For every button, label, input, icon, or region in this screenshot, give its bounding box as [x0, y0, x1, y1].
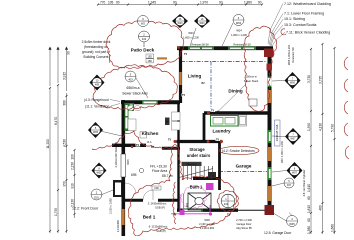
svg-text:W05: W05 — [93, 131, 99, 134]
svg-text:Garage Door: Garage Door — [237, 222, 252, 226]
svg-text:Floor Area: Floor Area — [152, 169, 167, 173]
svg-text:2,130x2,330 Slider(P): 2,130x2,330 Slider(P) — [114, 142, 118, 167]
svg-text:2/240x45 SG8: 2/240x45 SG8 — [275, 124, 279, 141]
bath south window — [182, 209, 203, 212]
svg-text:Sewer Stack Axis: Sewer Stack Axis — [122, 92, 148, 96]
svg-text:1,800 x 1,200: 1,800 x 1,200 — [231, 33, 247, 37]
W04 circle — [222, 15, 244, 47]
svg-text:1,610: 1,610 — [307, 184, 311, 192]
svg-text:1,795: 1,795 — [54, 208, 58, 216]
svg-text:8,470: 8,470 — [54, 117, 58, 125]
svg-text:2,130 x 1,982: 2,130 x 1,982 — [109, 198, 113, 214]
svg-text:1,380: 1,380 — [307, 226, 311, 234]
rotated side texts — [109, 44, 307, 232]
svg-text:Sewer Stack: Sewer Stack — [244, 79, 259, 83]
north wall — [177, 46, 273, 50]
svg-text:W05: W05 — [289, 222, 295, 226]
svg-text:FFL +19,30: FFL +19,30 — [150, 165, 167, 169]
svg-text:2,130x960: 2,130x960 — [116, 219, 120, 232]
svg-text:(4.3: Rangehood: (4.3: Rangehood — [84, 98, 109, 102]
svg-text:W03: W03 — [200, 22, 206, 25]
sewer wall window — [142, 101, 158, 105]
left side diamonds — [88, 75, 122, 201]
svg-text:1,345: 1,345 — [148, 1, 156, 5]
svg-text:15D: 15D — [148, 55, 153, 58]
svg-text:100: 100 — [71, 154, 75, 160]
red sill texts on top wall — [191, 43, 251, 46]
left dimension lines — [49, 88, 51, 233]
svg-text:Building Consent: Building Consent — [84, 55, 109, 59]
svg-text:434: 434 — [224, 202, 229, 206]
svg-text:12.2: Front Door: 12.2: Front Door — [72, 207, 99, 211]
living/laundry south wall — [204, 111, 271, 114]
right side diamonds — [272, 72, 303, 227]
svg-text:433: 433 — [142, 37, 147, 41]
svg-text:4.8: Hot Water Cylinder: 4.8: Hot Water Cylinder — [302, 169, 306, 196]
svg-text:910: 910 — [71, 183, 75, 189]
svg-text:4,130: 4,130 — [319, 123, 323, 131]
svg-text:W06: W06 — [290, 82, 296, 85]
svg-text:403: 403 — [128, 77, 133, 81]
svg-text:3,735: 3,735 — [319, 76, 323, 84]
svg-text:7.12: Weatherboard Cladding: 7.12: Weatherboard Cladding — [284, 2, 331, 6]
svg-text:Basement: Basement — [186, 163, 197, 166]
garage door thin line — [238, 209, 268, 211]
jog wall at entry — [112, 144, 146, 147]
svg-text:2,130 x 1,982: 2,130 x 1,982 — [199, 222, 215, 226]
svg-text:6: 2130x960mm: 6: 2130x960mm — [149, 225, 168, 229]
svg-text:15.1: Skirting: 15.1: Skirting — [284, 17, 305, 21]
svg-text:900: 900 — [185, 202, 189, 207]
dimension ticks — [49, 4, 336, 234]
svg-text:3: 2430x960mm: 3: 2430x960mm — [148, 202, 167, 206]
dining sewer note — [244, 75, 259, 84]
west living wall — [179, 47, 182, 104]
svg-text:Resistant Sill: Resistant Sill — [291, 47, 295, 62]
svg-text:(freestanding on: (freestanding on — [84, 45, 108, 49]
svg-text:105: 105 — [108, 1, 114, 5]
top wall diamonds — [172, 14, 210, 46]
storage north wall — [177, 140, 223, 143]
small boxed labels — [146, 54, 205, 190]
svg-text:11,200: 11,200 — [46, 139, 50, 149]
svg-text:4,530: 4,530 — [63, 139, 67, 147]
east wall windows — [268, 77, 272, 88]
svg-text:3,730: 3,730 — [307, 75, 311, 83]
svg-text:W06 1,000x1,200: W06 1,000x1,200 — [287, 44, 291, 65]
south wall (bath+garage) — [177, 208, 238, 211]
bed1 north wall — [123, 199, 143, 202]
laundry appliances white boxes — [239, 115, 247, 126]
svg-text:Bath 1: Bath 1 — [190, 185, 203, 190]
svg-text:(11.1: Ventilation: (11.1: Ventilation — [85, 105, 109, 109]
svg-text:15.3: Cornice/Scotia: 15.3: Cornice/Scotia — [284, 23, 316, 27]
svg-text:1,660: 1,660 — [331, 224, 335, 232]
svg-text:Resistant Sill 38: Resistant Sill 38 — [233, 43, 251, 46]
svg-text:90: 90 — [258, 1, 262, 5]
storage/bath west wall — [177, 102, 179, 210]
top patio balloons — [138, 16, 150, 48]
svg-text:Kitchen: Kitchen — [142, 131, 159, 136]
orange wall segments — [123, 58, 269, 225]
left rotated dimension numbers — [46, 72, 75, 216]
svg-text:W03: W03 — [188, 31, 194, 35]
kitchen west window — [125, 103, 129, 131]
svg-text:W07 1,800 x 1,200: W07 1,800 x 1,200 — [280, 141, 284, 163]
svg-text:60: 60 — [307, 218, 311, 222]
svg-text:Resistant Sill 38: Resistant Sill 38 — [191, 43, 209, 46]
svg-text:D01: D01 — [94, 195, 99, 199]
svg-text:W04: W04 — [236, 21, 242, 25]
maroon corner blocks — [264, 49, 274, 58]
svg-text:1,815: 1,815 — [307, 205, 311, 213]
svg-text:60: 60 — [307, 196, 311, 200]
svg-text:7.11: Brick Veneer Cladding: 7.11: Brick Veneer Cladding — [286, 30, 330, 34]
svg-text:407: 407 — [287, 184, 292, 187]
svg-text:W05: W05 — [97, 172, 103, 175]
svg-text:W03: W03 — [178, 22, 184, 25]
svg-text:15D: 15D — [148, 60, 153, 63]
right rotated dimension numbers — [307, 75, 335, 234]
svg-text:7.1: Lower Floor Framing: 7.1: Lower Floor Framing — [284, 12, 324, 16]
svg-text:2,230: 2,230 — [71, 162, 75, 170]
svg-text:SGB (P): SGB (P) — [156, 229, 166, 233]
svg-text:950: 950 — [63, 181, 67, 187]
svg-text:W2: W2 — [141, 22, 145, 26]
svg-text:85.7 m²: 85.7 m² — [162, 174, 174, 178]
svg-text:W07: W07 — [291, 138, 297, 141]
svg-text:695: 695 — [131, 173, 137, 177]
sewer stack wall — [121, 100, 180, 104]
svg-text:W08: W08 — [204, 218, 210, 222]
svg-text:380: 380 — [63, 100, 67, 106]
W04 top — [228, 47, 256, 50]
laundry bench green — [211, 116, 239, 127]
right dimension lines — [310, 49, 312, 234]
svg-text:W04: W04 — [236, 29, 242, 33]
svg-text:Storage: Storage — [189, 147, 205, 152]
svg-text:100mm-ø: 100mm-ø — [245, 75, 257, 79]
right (east) wall — [268, 47, 272, 215]
bath balloon — [208, 172, 235, 208]
svg-text:15D: 15D — [154, 187, 159, 190]
svg-text:6560m-a: 6560m-a — [126, 86, 139, 90]
laundry east wall — [203, 113, 206, 142]
svg-text:Laundry: Laundry — [212, 129, 231, 134]
sidelight gap in west wall — [121, 154, 126, 177]
svg-text:2,700 x 2,300: 2,700 x 2,300 — [236, 218, 252, 222]
svg-text:1,890: 1,890 — [244, 1, 252, 5]
sewer balloon — [125, 71, 148, 98]
svg-text:ground); not part of: ground); not part of — [82, 50, 110, 54]
svg-text:5,790: 5,790 — [331, 124, 335, 132]
svg-text:1,390: 1,390 — [307, 123, 311, 131]
svg-text:12.5: Garage Door: 12.5: Garage Door — [264, 231, 292, 235]
svg-text:2,130x1,982: 2,130x1,982 — [200, 226, 215, 230]
svg-text:1,970: 1,970 — [200, 1, 208, 5]
T5/T6 tick labels — [136, 52, 221, 146]
svg-text:460: 460 — [319, 205, 323, 211]
svg-text:W07: W07 — [292, 172, 298, 175]
west wall kitchen down to bottom — [122, 100, 126, 236]
svg-text:Bed 1: Bed 1 — [143, 215, 156, 220]
top dimension line — [98, 4, 262, 6]
svg-text:90: 90 — [219, 1, 223, 5]
top dimension numbers — [100, 1, 262, 5]
storage/bath east wall — [218, 142, 221, 191]
svg-text:(4.2: Smoke Detectors: (4.2: Smoke Detectors — [222, 149, 255, 153]
bed1 door swing — [143, 190, 153, 200]
svg-text:90: 90 — [67, 51, 71, 55]
svg-text:W05: W05 — [126, 159, 130, 165]
kitchen appliance boxes — [127, 106, 180, 138]
svg-text:3,915: 3,915 — [63, 72, 67, 80]
svg-text:SGB (P): SGB (P) — [155, 206, 165, 210]
svg-text:Patio Deck: Patio Deck — [131, 48, 155, 53]
svg-text:under stairs: under stairs — [187, 153, 211, 158]
svg-text:1,800 x 1,200: 1,800 x 1,200 — [183, 36, 199, 40]
svg-text:90: 90 — [116, 1, 120, 5]
svg-text:13.A: 13.A — [147, 141, 152, 144]
front door assembly — [113, 180, 122, 197]
svg-text:90: 90 — [173, 1, 177, 5]
small circle near entry — [139, 168, 143, 172]
svg-text:Alig Stone 85: Alig Stone 85 — [236, 226, 252, 230]
W03 top — [188, 47, 214, 50]
svg-text:Garage: Garage — [236, 164, 252, 169]
svg-text:Living: Living — [188, 74, 202, 79]
svg-text:408: 408 — [95, 84, 100, 87]
svg-text:770: 770 — [100, 1, 106, 5]
